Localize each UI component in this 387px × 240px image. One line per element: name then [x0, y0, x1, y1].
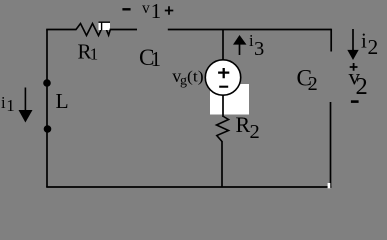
svg-text:v: v: [142, 0, 150, 17]
wire from source bottom through patch to R2: [222, 95, 224, 117]
svg-text:2: 2: [250, 121, 260, 143]
svg-text:i: i: [1, 93, 6, 112]
artifact white notch bottom-right corner: [328, 183, 331, 188]
artifact white patch behind R2 area: [210, 84, 249, 115]
label plus of v1: [165, 6, 174, 15]
svg-text:R: R: [236, 112, 251, 137]
wire from R1 to capacitor C1 gap: [110, 29, 138, 31]
voltage source plus sign: [218, 68, 229, 78]
svg-text:1: 1: [151, 49, 161, 71]
arrow i2 current (downward): [347, 29, 358, 60]
voltage source U1 circle vg(t): [205, 60, 240, 95]
label plus of v2: [350, 63, 358, 71]
label minus of v1: [122, 8, 130, 10]
svg-text:i: i: [361, 29, 367, 53]
resistor R2 zigzag: [217, 117, 229, 142]
node dot upper (inductor L top terminal): [43, 79, 51, 87]
wire middle branch upper (top wire to source top): [222, 30, 224, 61]
capacitor C1 (gap in top wire), right wire segment to top-right corner: [168, 29, 331, 31]
node dot lower (inductor L bottom terminal): [44, 125, 52, 133]
svg-text:L: L: [56, 89, 69, 113]
arrow i1 current (downward): [19, 88, 33, 123]
svg-text:1: 1: [151, 0, 161, 23]
svg-text:2: 2: [356, 73, 368, 100]
svg-text:3: 3: [254, 38, 264, 60]
svg-text:2: 2: [368, 35, 379, 59]
wire from R2 to bottom wire: [221, 141, 223, 187]
voltage source minus sign: [219, 86, 228, 88]
arrow i3 current (upward): [233, 35, 247, 55]
wire left vertical (node A to node D): [46, 30, 48, 188]
artifact white patch at R1 right end: [99, 22, 111, 31]
svg-text:2: 2: [308, 73, 318, 95]
svg-text:1: 1: [90, 45, 99, 64]
artifact patch vertical mark: [101, 22, 103, 31]
svg-text:g: g: [180, 74, 187, 89]
svg-text:(t): (t): [187, 69, 204, 86]
capacitor C2 (gap in right wire), lower wire segment: [330, 102, 332, 188]
label minus of v2: [351, 100, 359, 103]
wire bottom horizontal: [46, 186, 331, 188]
resistor R1 zigzag: [76, 24, 110, 36]
artifact patch top edge mark: [99, 21, 111, 23]
svg-text:1: 1: [6, 96, 15, 115]
wire right upper segment (top plate lead of C2): [330, 29, 332, 52]
wire top-left segment to resistor R1: [46, 29, 76, 31]
